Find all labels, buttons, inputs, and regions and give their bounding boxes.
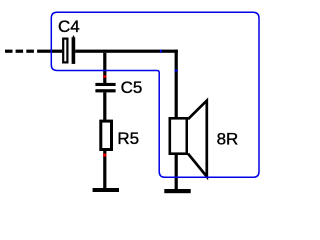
- svg-text:8R: 8R: [217, 129, 239, 148]
- wire (main horizontal from C4 to speaker corner): [75, 50, 178, 53]
- wire (R5 to ground): [103, 151, 106, 188]
- svg-text:R5: R5: [117, 129, 139, 148]
- wire (dashed input lead, left): [5, 50, 62, 53]
- pin marker (red tick below R5): [103, 154, 106, 157]
- ground (below R5): [93, 188, 119, 192]
- highlight outline (blue L-shaped rounded box): [51, 12, 259, 177]
- capacitor C5: [95, 83, 115, 92]
- wire (vertical down to speaker): [175, 50, 178, 118]
- wire (branch from junction down to C5): [103, 53, 106, 83]
- pin marker (red tick above C5): [103, 75, 106, 77]
- capacitor C4: [63, 36, 75, 64]
- wire (C5 to R5): [103, 92, 106, 119]
- wire (speaker to ground): [175, 155, 178, 190]
- loudspeaker LS1 (cone): [188, 101, 207, 177]
- svg-text:C4: C4: [58, 17, 80, 36]
- svg-text:C5: C5: [121, 78, 143, 97]
- node marker (blue tick on main wire): [160, 50, 162, 53]
- loudspeaker LS1 (driver): [170, 118, 187, 153]
- ground (below speaker): [164, 189, 190, 193]
- node marker (blue tick on speaker wire): [175, 70, 178, 72]
- resistor R5: [101, 121, 112, 149]
